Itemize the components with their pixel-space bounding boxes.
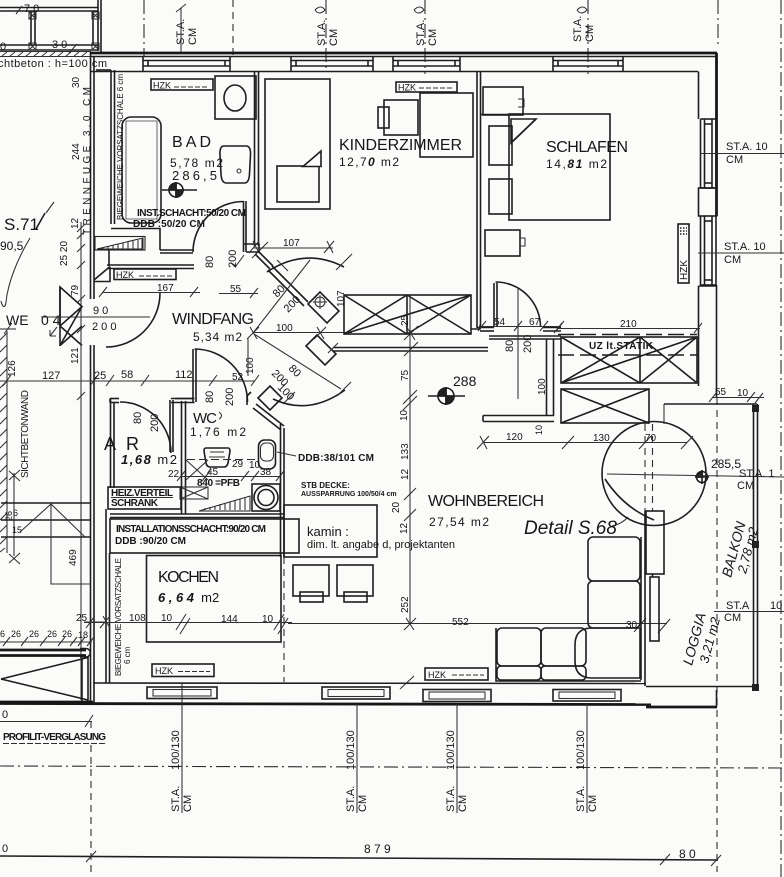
AR door swing arc [120, 402, 171, 453]
dim 210 line [554, 323, 702, 333]
svg-text:BIEGEWEICHE VORSATZSCHALE 6 cm: BIEGEWEICHE VORSATZSCHALE 6 cm [116, 74, 125, 220]
KOCHEN dim line [84, 614, 292, 634]
right wall window A [701, 119, 717, 188]
bottom-left twin beams [0, 650, 86, 656]
hatched wedge WC [199, 496, 250, 511]
svg-text:38: 38 [260, 467, 272, 478]
svg-text:8 7 9: 8 7 9 [364, 842, 391, 856]
svg-text:S.71: S.71 [4, 215, 39, 234]
tick at upper arc end [336, 254, 352, 270]
svg-text:dim. lt. angabe d, projektante: dim. lt. angabe d, projektanten [307, 539, 455, 551]
niche bottom edge [94, 267, 110, 282]
KINDERZIMMER wardrobe [420, 93, 473, 157]
axis grid line E (vertical dash-dot, SCHLAFEN window) [587, 0, 589, 74]
svg-text:26: 26 [62, 629, 72, 639]
svg-text:22: 22 [168, 469, 180, 480]
cross marks WC corner [186, 460, 208, 480]
Detail circle inner arc [605, 479, 654, 520]
balcony railing post markers (crossed squares) [29, 12, 99, 50]
kitchen sink unit [252, 484, 280, 511]
svg-text:552: 552 [452, 617, 469, 628]
UZ beam dashed lines [558, 335, 697, 356]
dim chain line x=81 [80, 222, 82, 700]
svg-text:HZK: HZK [398, 83, 416, 93]
svg-text:ST.A.: ST.A. [572, 16, 584, 42]
svg-text:CM: CM [187, 28, 199, 45]
WC door leaf [192, 349, 194, 402]
svg-text:127: 127 [42, 370, 60, 382]
svg-text:25: 25 [94, 370, 106, 382]
svg-text:26: 26 [4, 511, 14, 521]
svg-text:3 0: 3 0 [52, 39, 67, 51]
label ST.A. 10 CM right axis 2 [698, 252, 784, 254]
sofa front strip 1 [497, 666, 541, 680]
dim line 55 10 (loggia) [709, 392, 764, 403]
svg-text:200: 200 [224, 388, 236, 406]
window axis label 2 [345, 704, 369, 813]
right wall window B [701, 216, 717, 285]
heater HZK box WINDFANG [114, 269, 176, 280]
svg-text:STB DECKE:: STB DECKE: [301, 481, 350, 490]
axis grid line F (vertical dash-dot at building corner) [717, 0, 719, 44]
svg-text:70: 70 [645, 433, 657, 444]
SCHLAFEN door swing arc [496, 282, 541, 327]
svg-text:20: 20 [391, 501, 402, 513]
WC toilet [259, 440, 276, 469]
hatched sichtbeton strip under railing [0, 52, 91, 57]
BAD left partition wall [110, 70, 112, 224]
SCHLAFEN wardrobe top [483, 87, 523, 115]
dim line 100 horizontal (windfang) [247, 327, 352, 339]
SCHLAFEN wardrobe 2 [485, 230, 520, 256]
WC door swing arc [195, 349, 248, 402]
right wall pier between windows [699, 188, 717, 216]
washing machine BAD [215, 76, 256, 119]
top wall inner line [91, 71, 698, 73]
WC right wall [280, 424, 282, 557]
bottom wall outer line [0, 704, 651, 705]
svg-text:100: 100 [245, 357, 256, 374]
svg-text:10: 10 [534, 425, 544, 435]
svg-text:ST.A.: ST.A. [575, 786, 587, 812]
vertical dashed line below loggia [716, 398, 718, 872]
svg-text:10: 10 [262, 614, 274, 625]
thin diagonal extension upper [253, 260, 310, 333]
rail end marker bottom [752, 684, 759, 691]
loggia top wall [664, 403, 757, 405]
svg-text:ST.A: ST.A [726, 600, 750, 612]
small arrow under triangle [50, 327, 57, 336]
svg-text:120: 120 [506, 432, 523, 443]
svg-text:15: 15 [12, 525, 22, 535]
sofa front strip 2 [541, 666, 586, 680]
SCHLAFEN left wall [476, 72, 478, 329]
lower diagonal door leaf [306, 335, 336, 365]
beam crossed box 2 [561, 389, 649, 423]
ticks on dim chain x=81 [77, 224, 85, 400]
svg-text:HZK: HZK [116, 270, 134, 280]
svg-text:CM: CM [724, 254, 741, 266]
svg-text:112: 112 [175, 369, 193, 381]
svg-text:SCHLAFEN: SCHLAFEN [546, 139, 628, 156]
WINDFANG niche wall above HZK [107, 264, 194, 266]
BAD door swing arc [193, 202, 244, 253]
vertical ext line x=248 [247, 338, 249, 376]
diagonal wall stub upper door [255, 251, 273, 269]
chimney duct box with cross (windfang/kinderzimmer) [344, 295, 471, 334]
hatched wedge BAD [95, 237, 145, 251]
SCHLAFEN bed [509, 114, 610, 220]
zigzag brace [20, 504, 85, 537]
entrance axis line [41, 316, 150, 318]
svg-text:CM: CM [584, 25, 596, 42]
SCHLAFEN wall with door opening [477, 328, 561, 332]
svg-text:67: 67 [529, 317, 541, 328]
svg-text:KINDERZIMMER: KINDERZIMMER [339, 137, 462, 154]
tick axis A [176, 4, 186, 12]
svg-text:121: 121 [70, 347, 81, 364]
svg-text:100/130: 100/130 [170, 730, 182, 770]
bottom window WOHN 3 [553, 690, 621, 702]
vertical HZK heater SCHLAFEN right [678, 224, 689, 283]
BAD door leaf [243, 201, 245, 252]
svg-text:6: 6 [0, 629, 5, 639]
label ST.A 10 CM loggia [714, 611, 784, 613]
balcony railing top-left: rails [0, 0, 101, 53]
svg-text:55: 55 [230, 284, 242, 295]
kamin box [284, 505, 377, 557]
sofa cushion right 1 [588, 537, 640, 581]
survey point WOHNBEREICH [428, 387, 465, 405]
svg-text:BIEGEWEICHE VORSATZSCHALE: BIEGEWEICHE VORSATZSCHALE [114, 558, 123, 676]
svg-text:30: 30 [626, 620, 638, 631]
leader curve from S.71 to entrance [1, 238, 30, 307]
tick on bottom wall [400, 676, 414, 689]
svg-text:8 0: 8 0 [679, 847, 696, 861]
wall lower line below SCHLAFEN door [489, 335, 561, 337]
sofa cushion bottom 2 [541, 628, 586, 666]
wall under duct box [333, 347, 488, 349]
axis grid line B (vertical dashed at x=233) [232, 0, 234, 56]
bar stool 2 [337, 565, 373, 596]
svg-text:CM: CM [457, 795, 469, 812]
upper diagonal door leaf [268, 266, 308, 306]
kamin dashed line [283, 557, 285, 682]
dim line 107 (KZ diagonal) [249, 241, 334, 253]
svg-text:58: 58 [121, 369, 133, 381]
svg-text:INST.SCHACHT:50/20 CM: INST.SCHACHT:50/20 CM [137, 208, 246, 219]
svg-text:CM: CM [182, 795, 194, 812]
washbasin BAD [220, 146, 251, 183]
svg-text:12: 12 [399, 522, 410, 534]
svg-text:2 0 0: 2 0 0 [92, 321, 116, 333]
svg-text:CM: CM [724, 612, 741, 624]
KINDERZIMMER bed [265, 79, 330, 209]
SICHTBETONWAND hatched wall [0, 331, 7, 553]
svg-text:107: 107 [283, 238, 300, 249]
wohn/loggia window frame [646, 511, 664, 574]
label ST.A. 10 CM right axis 1 [700, 153, 784, 155]
svg-text:210: 210 [620, 319, 637, 330]
wall block between diagonal doors [308, 292, 339, 323]
dash-dot stub above S.71 [46, 202, 54, 213]
svg-text:INSTALLATIONSSCHACHT:90/20 CM: INSTALLATIONSSCHACHT:90/20 CM [116, 524, 266, 535]
svg-text:SCHRANK: SCHRANK [111, 498, 159, 509]
svg-text:10: 10 [161, 613, 173, 624]
window axis label 1 (100/130 ST.A. CM) [170, 684, 194, 813]
svg-text:25 20: 25 20 [59, 241, 70, 266]
loggia bottom wall [646, 686, 758, 688]
window KINDERZIMMER 1 sill lines [291, 61, 373, 67]
axis grid line A (vertical dash-dot, BAD window) [143, 0, 145, 57]
svg-text:100/130: 100/130 [445, 730, 457, 770]
BAD inner top line [96, 69, 111, 71]
tick WE line left [0, 323, 16, 334]
svg-text:12: 12 [400, 468, 411, 480]
svg-text:ST.A.: ST.A. [170, 786, 182, 812]
svg-text:30: 30 [71, 76, 82, 88]
BAD lower-left wall step [109, 229, 160, 267]
svg-text:10: 10 [249, 460, 261, 471]
svg-text:55: 55 [715, 387, 727, 398]
svg-text:18: 18 [78, 630, 88, 640]
svg-text:80: 80 [204, 391, 216, 403]
WC bottom wall [110, 513, 284, 515]
tick on balcony dim [69, 44, 77, 53]
sheet border dash-dot right edge [780, 0, 782, 877]
axis marker on diagonal [313, 295, 327, 309]
wall corner piece at BAD door [243, 244, 259, 252]
axis grid line C (vertical dash-dot, KZ window) [325, 0, 327, 71]
ticks lower door [283, 382, 351, 404]
svg-text:126: 126 [7, 360, 18, 377]
entrance direction triangle marker [60, 287, 82, 346]
svg-text:WE: WE [6, 312, 29, 328]
BAD door check mark [231, 255, 244, 266]
KOCHEN room outline [147, 556, 282, 643]
svg-text:0 4: 0 4 [41, 312, 61, 328]
svg-text:100: 100 [276, 323, 293, 334]
svg-text:286,5: 286,5 [172, 168, 217, 183]
tick at x=91 [86, 851, 96, 862]
svg-text:7 0: 7 0 [24, 3, 39, 15]
svg-text:CM: CM [726, 154, 743, 166]
SCHLAFEN nightstand 1 [489, 126, 512, 165]
svg-text:PROFILIT-VERGLASUNG: PROFILIT-VERGLASUNG [3, 732, 106, 743]
window axis label 4 [575, 704, 599, 813]
svg-text:144: 144 [221, 614, 238, 625]
svg-text:107: 107 [336, 290, 347, 307]
KINDERZIMMER desk [384, 100, 418, 135]
WC dim line [177, 471, 284, 481]
svg-text:14,81 m2: 14,81 m2 [546, 157, 607, 171]
WC door jamb [247, 392, 251, 405]
Detail circle [602, 422, 706, 526]
svg-text:Detail S.68: Detail S.68 [524, 518, 617, 539]
svg-text:10: 10 [737, 388, 749, 399]
svg-text:252: 252 [400, 596, 411, 613]
svg-text:100/130: 100/130 [575, 730, 587, 770]
ticks on y=381 dim [3, 375, 259, 386]
ticks on x=410 chain [403, 326, 418, 630]
wall stub left of schlafen door (bar) [483, 339, 554, 422]
small crossed box (WC floor) [180, 487, 208, 499]
svg-text:45: 45 [207, 467, 219, 478]
survey point BAD [162, 182, 197, 198]
right exterior wall outer [715, 53, 718, 216]
rail end marker top [752, 405, 759, 412]
datum line through circle [607, 474, 784, 477]
svg-text:80: 80 [204, 256, 216, 268]
wohn/loggia glass strip [650, 577, 659, 641]
svg-text:100: 100 [537, 378, 548, 395]
heater HZK box KINDERZIMMER [396, 82, 457, 92]
thin diagonal extension lower [254, 334, 341, 389]
duct connector to schlafen wall [471, 325, 480, 329]
svg-text:12,70 m2: 12,70 m2 [339, 155, 399, 169]
AR left wall [110, 399, 112, 489]
installation shaft box [110, 519, 299, 553]
svg-text:244: 244 [71, 143, 82, 160]
beam crossed box above loggia [561, 337, 697, 383]
svg-text:0: 0 [2, 843, 8, 855]
window SCHLAFEN sill lines [553, 61, 623, 67]
upper diagonal door swing arc [267, 258, 344, 272]
BAD bottom wall [160, 249, 193, 251]
wohn/loggia partition dashed upper [645, 424, 653, 511]
window axis label 3 [445, 704, 469, 813]
svg-text:75: 75 [400, 369, 411, 381]
svg-text:100/130: 100/130 [345, 730, 357, 770]
svg-text:200: 200 [227, 250, 239, 268]
svg-text:SICHTBETONWAND: SICHTBETONWAND [20, 390, 31, 478]
svg-text:ST.A.: ST.A. [345, 786, 357, 812]
svg-text:HZK: HZK [153, 81, 171, 91]
dim line 26-series y=642 [0, 637, 94, 646]
bathtub [122, 117, 161, 223]
dim line 120/130/70 [477, 436, 693, 449]
sofa corner cushion [575, 628, 640, 678]
svg-text:5,34 m2: 5,34 m2 [193, 330, 242, 344]
tick wall under duct [328, 343, 338, 353]
window KINDERZIMMER 2 sill lines [393, 61, 460, 67]
tick at diagonal wall start [252, 242, 268, 258]
svg-text:ST.A. 10: ST.A. 10 [726, 141, 768, 153]
svg-text:HZK: HZK [428, 670, 446, 680]
svg-text:200: 200 [149, 414, 161, 432]
entrance door swing arc [106, 293, 160, 347]
svg-text:79: 79 [70, 284, 81, 296]
tick at x=716 [711, 855, 721, 866]
svg-text:CM: CM [737, 480, 754, 492]
lower diagonal door hinge block [258, 386, 282, 410]
heater HZK box WOHNBEREICH [425, 668, 488, 680]
svg-text:CM: CM [587, 795, 599, 812]
bottom wall inner line [93, 682, 646, 685]
axis grid line D (vertical dash-dot, KZ window 2) [424, 0, 426, 74]
leader line toilet to DDB label [277, 452, 296, 456]
svg-text:10: 10 [399, 409, 410, 421]
top wall pier jambs [143, 57, 623, 72]
svg-text:90,5: 90,5 [0, 239, 24, 253]
svg-text:25: 25 [400, 314, 411, 326]
SCHLAFEN door leaf [493, 283, 495, 327]
horizontal dash-dot datum line bottom [0, 766, 784, 768]
svg-text:ST.A.: ST.A. [445, 786, 457, 812]
dim line 167 [99, 287, 200, 297]
window BAD sill lines [143, 61, 230, 67]
sofa cushion right 2 [588, 581, 640, 628]
WC top wall left piece [110, 399, 195, 403]
svg-text:54: 54 [494, 317, 506, 328]
door axis thin line [517, 287, 519, 399]
heating cabinet HEIZ.VERTEIL SCHRANK [108, 487, 181, 509]
bar stool 1 [293, 565, 329, 596]
svg-text:12: 12 [70, 217, 81, 229]
svg-text:HZK: HZK [679, 260, 690, 280]
svg-text:CM: CM [427, 29, 439, 46]
bottom dimension line 879 [0, 856, 718, 860]
L-shaped leader x=51 [51, 503, 91, 584]
right wall inner upper [698, 72, 700, 120]
svg-text:130: 130 [593, 433, 610, 444]
SCHLAFEN door dim line [478, 321, 564, 331]
left dim line x=14 with X ticks [9, 470, 20, 564]
svg-text:AUSSPARRUNG 100/50/4 cm: AUSSPARRUNG 100/50/4 cm [301, 491, 397, 498]
tick at x=665 [660, 854, 670, 865]
svg-text:CM: CM [328, 29, 340, 46]
svg-text:10: 10 [770, 600, 782, 612]
vertical dim chain x=410 [409, 297, 411, 624]
sofa back right wall [640, 537, 642, 680]
svg-text:ST.A. 10: ST.A. 10 [724, 241, 766, 253]
survey point loggia [695, 470, 709, 484]
svg-text:DDB :90/20 CM: DDB :90/20 CM [115, 536, 186, 547]
BAD right wall / KINDERZIMMER left wall [254, 72, 256, 247]
balcony rail right [753, 404, 755, 691]
heater HZK box KOCHEN [152, 664, 214, 677]
bottom window KOCHEN [147, 687, 217, 699]
tick on upper leaf [277, 260, 288, 271]
svg-text:29: 29 [232, 459, 244, 470]
bottom-left ground line [0, 701, 93, 704]
KINDERZIMMER chair [378, 107, 389, 128]
dashed shelf line over washbasin [187, 459, 257, 461]
svg-text:27,54 m2: 27,54 m2 [429, 515, 489, 529]
AR/WC divider wall [181, 401, 183, 514]
svg-text:285,5: 285,5 [711, 457, 741, 471]
bottom window WOHN 2 [423, 690, 491, 702]
heater HZK box BAD [151, 79, 213, 90]
left party wall double line (Trennfuge) [90, 52, 92, 299]
SCHLAFEN nightstand 2 [489, 179, 512, 214]
sofa cushion bottom 1 [497, 628, 541, 666]
svg-text:kamin :: kamin : [307, 524, 349, 539]
svg-text:200: 200 [522, 335, 534, 353]
KOCHEN left wall [105, 509, 107, 683]
svg-text:80: 80 [132, 412, 144, 424]
svg-text:469: 469 [68, 549, 79, 566]
right wall lower block [699, 285, 717, 398]
dim line 25 arrow y=622 left of wall [84, 617, 105, 628]
lower diagonal door swing arc [273, 390, 345, 406]
svg-text:80: 80 [504, 340, 516, 352]
svg-text:UZ lt.STATIK: UZ lt.STATIK [589, 341, 654, 352]
svg-text:HZK: HZK [155, 666, 173, 676]
svg-text:9 0: 9 0 [93, 305, 108, 317]
vertical dashed line below left wall [90, 721, 92, 877]
svg-text:6 cm: 6 cm [123, 646, 132, 664]
